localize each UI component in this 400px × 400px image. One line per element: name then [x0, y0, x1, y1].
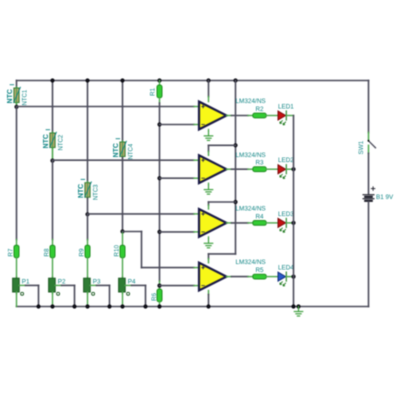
svg-text:NTC: NTC — [43, 134, 50, 148]
switch SW1 — [358, 133, 376, 155]
junction reference / op-amp 2 - input — [157, 176, 161, 180]
junction top rail / R1 column — [157, 78, 161, 82]
wire column NTC1 from top rail — [16, 81, 18, 88]
node NTC4 junction — [120, 229, 124, 233]
wire P1 to ground rail — [16, 292, 18, 307]
LED1 — [278, 104, 294, 125]
ground op-amp 1 — [204, 129, 212, 140]
junction P3 wiper on rail — [107, 304, 111, 308]
junction P2 wiper on rail — [72, 304, 76, 308]
wire supply column 2 — [235, 81, 237, 254]
wire top supply rail — [17, 80, 369, 82]
svg-text:R4: R4 — [255, 213, 264, 220]
wire R3 to LED2 — [266, 168, 278, 170]
svg-text:LM324/NS: LM324/NS — [236, 206, 266, 213]
svg-text:NTC1: NTC1 — [23, 89, 29, 105]
svg-text:NTC3: NTC3 — [94, 184, 100, 200]
svg-text:LED1: LED1 — [278, 104, 294, 111]
op-amp U3 LM324/NS — [199, 206, 266, 237]
wire switch to battery — [368, 153, 370, 193]
wire to R6 — [159, 281, 161, 289]
svg-text:LED4: LED4 — [278, 265, 294, 272]
wire node to R8 — [52, 161, 54, 240]
wire column NTC4 from top rail — [122, 81, 124, 142]
junction P4 wiper on rail — [143, 304, 147, 308]
wire jog to op-amp 4 + input — [142, 267, 195, 269]
wire P2 wiper — [55, 284, 61, 286]
potentiometer P2 — [49, 277, 66, 295]
svg-text:P2: P2 — [58, 279, 66, 286]
wire op-amp 4 V- to ground rail — [208, 291, 210, 295]
wire LED2 to cathode column — [286, 168, 293, 170]
wire NTC4 tap jog horizontal — [123, 231, 142, 233]
op-amp U2 LM324/NS — [199, 152, 266, 183]
svg-text:B1 9V: B1 9V — [376, 194, 394, 201]
node NTC3 junction — [85, 212, 89, 216]
wire reference to op-amp 1 - input — [160, 124, 195, 126]
svg-text:P3: P3 — [93, 279, 101, 286]
junction reference / op-amp 1 - input — [157, 122, 161, 126]
junction reference / op-amp 3 - input — [157, 230, 161, 234]
wire R6 to ground rail — [159, 302, 161, 307]
junction P2 bottom on rail — [50, 304, 54, 308]
op-amp U1 LM324/NS — [199, 98, 266, 129]
thermistor NTC3 — [78, 179, 100, 200]
svg-text:R9: R9 — [78, 248, 85, 257]
junction P4 bottom on rail — [120, 304, 124, 308]
ground op-amp 3 — [204, 237, 212, 248]
resistor R9 — [78, 245, 90, 258]
wire R10 to P4 — [122, 258, 124, 278]
wire P3 to ground rail — [87, 292, 89, 307]
wire R8 to P2 — [52, 258, 54, 278]
wire reference column — [159, 98, 161, 103]
wire supply branch to op-amp 4 V+ — [209, 253, 236, 255]
wire NTC3 bottom to node — [87, 198, 89, 214]
wire R9 to P3 — [87, 258, 89, 278]
junction supply 2 / op-amp 3 V+ — [233, 200, 237, 204]
wire LED4 to cathode column — [286, 276, 293, 278]
battery B1 9V — [363, 187, 394, 201]
junction op-amp 4 V- on rail — [206, 304, 210, 308]
svg-text:R1: R1 — [149, 87, 156, 96]
svg-text:NTC2: NTC2 — [59, 134, 65, 150]
svg-text:R2: R2 — [255, 106, 264, 113]
svg-text:LED3: LED3 — [278, 211, 294, 218]
junction supply 2 / op-amp 2 V+ — [233, 143, 237, 147]
node NTC1 junction — [14, 105, 18, 109]
wire NTC2 node to op-amp 2 + input — [53, 159, 195, 161]
junction LED4 on cathode column — [291, 275, 295, 279]
svg-text:R8: R8 — [43, 248, 50, 257]
wire node to R9 — [87, 214, 89, 239]
junction LED2 on cathode column — [291, 167, 295, 171]
junction P1 wiper on rail — [36, 304, 40, 308]
wire column NTC2 from top rail — [52, 81, 54, 133]
potentiometer P4 — [119, 277, 136, 295]
resistor R4 — [253, 213, 266, 225]
wire op-amp 4 output to R5 — [227, 276, 232, 278]
wire NTC2 bottom to node — [52, 149, 54, 161]
potentiometer P1 — [13, 277, 30, 295]
wire reference to op-amp 3 - input — [160, 231, 195, 233]
wire R2 to LED1 — [266, 115, 278, 117]
junction cathode column on rail — [291, 304, 295, 308]
svg-text:NTC: NTC — [113, 143, 120, 157]
wire P3 wiper — [90, 284, 96, 286]
wire supply column to op-amp 1 V+ — [208, 81, 210, 97]
junction top rail / NTC4 column — [120, 78, 124, 82]
resistor R2 — [253, 106, 266, 118]
wire NTC3 node to op-amp 3 + input — [88, 213, 195, 215]
resistor R10 — [113, 245, 125, 258]
wire op-amp 2 output to R3 — [227, 168, 232, 170]
svg-text:R7: R7 — [7, 248, 14, 257]
resistor R5 — [253, 267, 266, 279]
wire supply branch to op-amp 3 V+ — [209, 201, 236, 203]
wire reference to op-amp 2 - input — [160, 177, 195, 179]
op-amp U4 LM324/NS — [199, 259, 266, 290]
ground main — [294, 304, 302, 316]
thermistor NTC2 — [43, 130, 65, 151]
resistor R1 — [149, 81, 162, 98]
svg-text:R5: R5 — [255, 267, 264, 274]
wire node to R7 — [16, 107, 18, 240]
junction R6 on rail — [157, 304, 161, 308]
LED2 — [278, 157, 294, 178]
svg-text:R10: R10 — [113, 245, 120, 257]
wire LED cathode column — [293, 116, 295, 307]
svg-text:LM324/NS: LM324/NS — [236, 152, 266, 159]
LED3 — [278, 211, 294, 232]
svg-text:LM324/NS: LM324/NS — [236, 259, 266, 266]
wire R4 to LED3 — [266, 222, 278, 224]
wire NTC4 tap jog vertical — [141, 232, 143, 268]
wire op-amp 3 output to R4 — [227, 222, 232, 224]
junction P3 bottom on rail — [85, 304, 89, 308]
ground op-amp 2 — [204, 183, 212, 194]
junction top rail / opamp supply 2 column — [233, 78, 237, 82]
thermistor NTC1 — [7, 85, 29, 106]
junction LED3 on cathode column — [291, 221, 295, 225]
node NTC2 junction — [50, 159, 54, 163]
resistor R8 — [43, 245, 55, 258]
wire node to R10 — [122, 232, 124, 246]
wire R5 to LED4 — [266, 276, 278, 278]
svg-text:R3: R3 — [255, 160, 264, 167]
svg-text:R6: R6 — [151, 292, 158, 301]
wire NTC1 node to op-amp 1 + input — [17, 106, 195, 108]
wire LED3 to cathode column — [286, 222, 293, 224]
wire R7 to P1 — [16, 258, 18, 278]
wire battery to ground rail — [368, 202, 370, 307]
wire P4 wiper — [125, 284, 131, 286]
wire P1 wiper — [19, 284, 25, 286]
junction top rail / NTC3 column — [85, 78, 89, 82]
wire right column upper — [368, 81, 370, 133]
thermistor NTC4 — [113, 139, 135, 160]
svg-text:LM324/NS: LM324/NS — [236, 98, 266, 105]
resistor R7 — [7, 245, 19, 258]
svg-text:NTC4: NTC4 — [129, 143, 135, 159]
wire reference to op-amp 4 - input — [160, 285, 195, 287]
junction top rail / opamp supply 1 column — [206, 78, 210, 82]
LED4 — [278, 265, 294, 286]
wire supply branch to op-amp 2 V+ — [209, 144, 236, 146]
junction top rail / NTC2 column — [50, 78, 54, 82]
svg-text:SW1: SW1 — [358, 140, 365, 154]
wire P2 to ground rail — [52, 292, 54, 307]
wire P4 to ground rail — [122, 292, 124, 307]
resistor R3 — [253, 160, 266, 172]
resistor R6 — [151, 289, 162, 302]
wire op-amp 1 output to R2 — [227, 115, 232, 117]
svg-text:P1: P1 — [22, 279, 30, 286]
svg-text:LED2: LED2 — [278, 157, 294, 164]
wire NTC4 bottom to tap — [122, 158, 124, 232]
svg-text:NTC: NTC — [7, 89, 14, 103]
wire NTC1 bottom to node — [16, 104, 18, 107]
svg-text:P4: P4 — [128, 279, 136, 286]
svg-text:NTC: NTC — [78, 184, 85, 198]
wire column NTC3 from top rail — [87, 81, 89, 182]
potentiometer P3 — [84, 277, 101, 295]
wire bottom ground rail — [17, 306, 369, 308]
wire LED1 to cathode column — [286, 115, 293, 117]
junction reference / op-amp 4 - input — [157, 284, 161, 288]
